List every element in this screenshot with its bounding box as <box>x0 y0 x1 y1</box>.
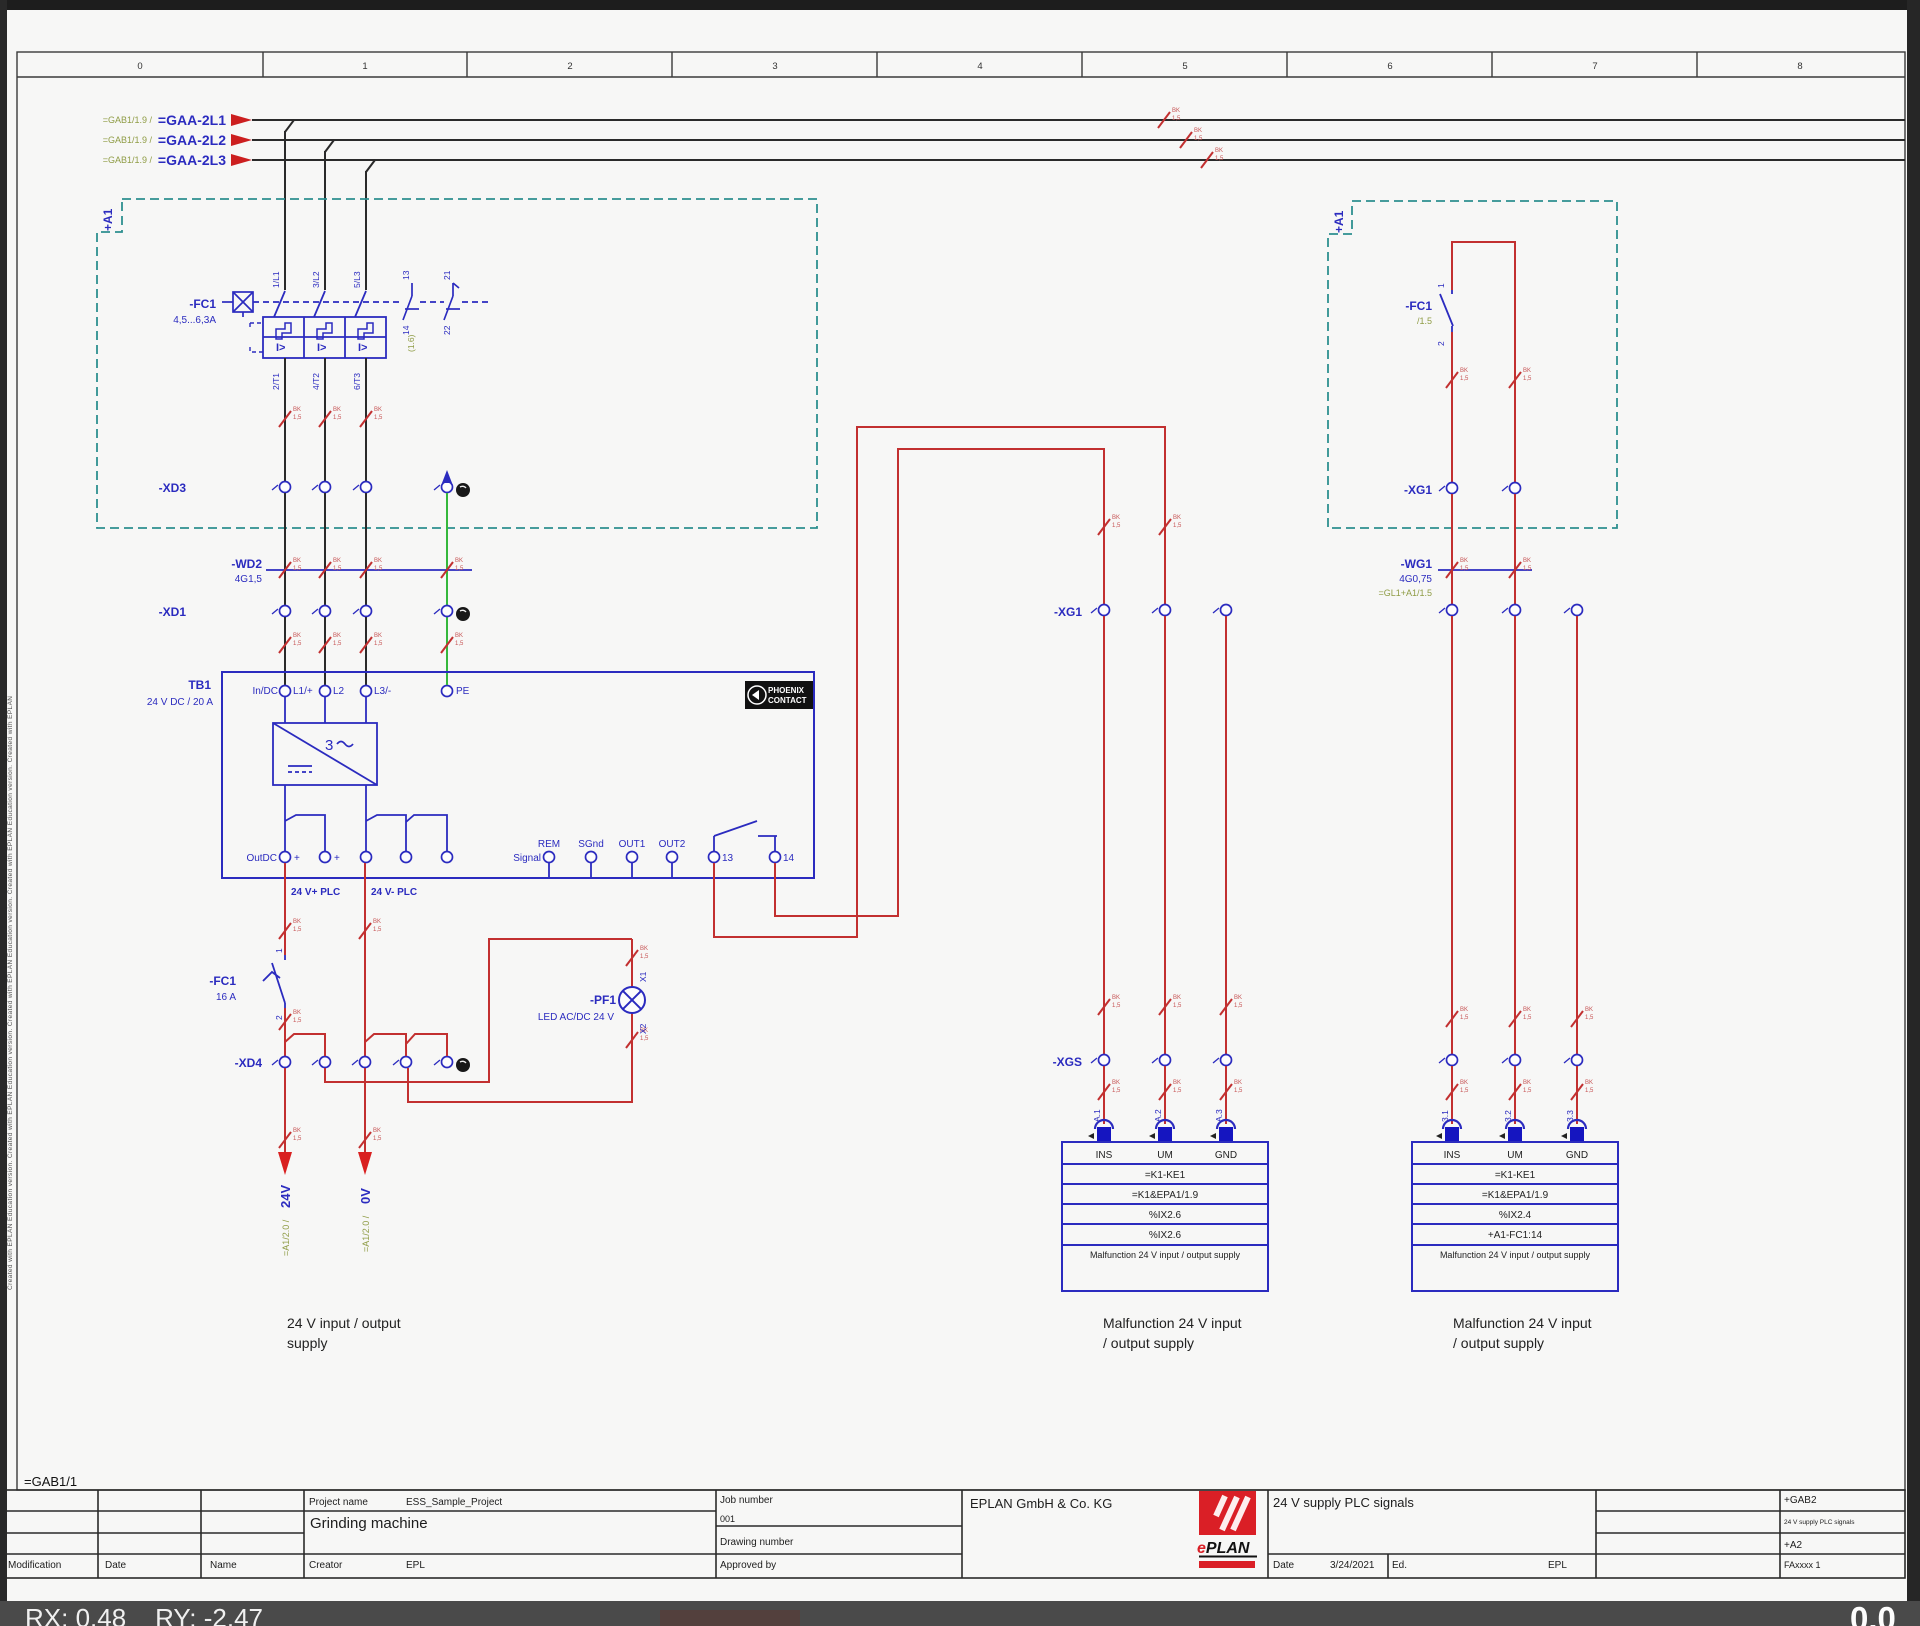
svg-text:X1: X1 <box>638 971 648 982</box>
svg-text:24 V supply PLC signals: 24 V supply PLC signals <box>1273 1495 1414 1510</box>
svg-text:In/DC: In/DC <box>252 686 278 697</box>
svg-text:3/24/2021: 3/24/2021 <box>1330 1560 1375 1571</box>
svg-text:=K1&EPA1/1.9: =K1&EPA1/1.9 <box>1132 1190 1199 1201</box>
svg-text:%IX2.6: %IX2.6 <box>1149 1210 1182 1221</box>
svg-text:6: 6 <box>1387 61 1392 72</box>
svg-text:+: + <box>334 853 340 864</box>
svg-text:ESS_Sample_Project: ESS_Sample_Project <box>406 1497 502 1508</box>
svg-text:4G1,5: 4G1,5 <box>235 574 263 585</box>
svg-text:ePLAN: ePLAN <box>1197 1540 1250 1557</box>
svg-text:Malfunction 24 V input: Malfunction 24 V input <box>1103 1315 1242 1331</box>
svg-text:(1.6): (1.6) <box>406 334 416 352</box>
svg-text:-XD1: -XD1 <box>159 605 187 619</box>
svg-text:1/L1: 1/L1 <box>271 271 281 288</box>
svg-text:2: 2 <box>1436 341 1446 346</box>
svg-text:14: 14 <box>401 325 411 335</box>
svg-text:=GAB1/1.9 /: =GAB1/1.9 / <box>103 115 153 125</box>
svg-text:1: 1 <box>1436 283 1446 288</box>
svg-text:Modification: Modification <box>8 1560 61 1571</box>
svg-text:21: 21 <box>442 270 452 280</box>
svg-text:-WD2: -WD2 <box>231 557 262 571</box>
svg-text:3: 3 <box>325 737 333 754</box>
svg-text:13: 13 <box>401 270 411 280</box>
svg-text:-PF1: -PF1 <box>590 993 616 1007</box>
svg-text:=K1-KE1: =K1-KE1 <box>1145 1170 1186 1181</box>
svg-text:001: 001 <box>720 1514 735 1524</box>
svg-text:Job number: Job number <box>720 1495 773 1506</box>
svg-text:22: 22 <box>442 325 452 335</box>
svg-text:Grinding machine: Grinding machine <box>310 1515 428 1532</box>
svg-text:=GL1+A1/1.5: =GL1+A1/1.5 <box>1378 588 1432 598</box>
svg-text:I>: I> <box>317 342 326 354</box>
svg-text:0.0: 0.0 <box>1850 1600 1896 1626</box>
svg-text:24 V input / output: 24 V input / output <box>287 1315 401 1331</box>
svg-text:+A1-FC1:14: +A1-FC1:14 <box>1488 1230 1543 1241</box>
svg-text:/ output supply: / output supply <box>1103 1335 1194 1351</box>
svg-text:LED AC/DC 24 V: LED AC/DC 24 V <box>538 1012 614 1023</box>
svg-text:16 A: 16 A <box>216 992 236 1003</box>
svg-text:=GAB1/1: =GAB1/1 <box>24 1474 77 1489</box>
svg-text:=A1/2.0 /: =A1/2.0 / <box>281 1219 291 1256</box>
svg-text:24 V supply PLC signals: 24 V supply PLC signals <box>1784 1519 1855 1526</box>
svg-text:UM: UM <box>1507 1150 1523 1161</box>
svg-text:2/T1: 2/T1 <box>271 373 281 390</box>
svg-text:2: 2 <box>274 1015 284 1020</box>
svg-text:+GAB2: +GAB2 <box>1784 1495 1817 1506</box>
svg-text:Project name: Project name <box>309 1497 368 1508</box>
svg-text:Approved by: Approved by <box>720 1560 776 1571</box>
svg-text:GND: GND <box>1215 1150 1237 1161</box>
svg-text:+A1: +A1 <box>101 208 115 231</box>
svg-text:-XG1: -XG1 <box>1054 605 1082 619</box>
svg-text:24 V- PLC: 24 V- PLC <box>371 887 417 898</box>
svg-text:L2: L2 <box>333 686 345 697</box>
svg-text:=K1-KE1: =K1-KE1 <box>1495 1170 1536 1181</box>
svg-text:OUT2: OUT2 <box>659 839 686 850</box>
svg-text:5: 5 <box>1182 61 1187 72</box>
svg-text:4: 4 <box>977 61 982 72</box>
svg-text:4,5...6,3A: 4,5...6,3A <box>173 315 216 326</box>
svg-text:1: 1 <box>362 61 367 72</box>
svg-text:4/T2: 4/T2 <box>311 373 321 390</box>
svg-text:Name: Name <box>210 1560 237 1571</box>
svg-text:supply: supply <box>287 1335 327 1351</box>
svg-text:Created with EPLAN Education v: Created with EPLAN Education version. Cr… <box>7 696 14 1290</box>
svg-text:13: 13 <box>722 853 734 864</box>
svg-text:24 V DC / 20 A: 24 V DC / 20 A <box>147 697 213 708</box>
svg-text:PE: PE <box>456 686 470 697</box>
svg-text:Malfunction 24 V input / outpu: Malfunction 24 V input / output supply <box>1090 1250 1241 1260</box>
svg-text:Malfunction 24 V input: Malfunction 24 V input <box>1453 1315 1592 1331</box>
svg-text:7: 7 <box>1592 61 1597 72</box>
svg-text:REM: REM <box>538 839 560 850</box>
svg-text:%IX2.6: %IX2.6 <box>1149 1230 1182 1241</box>
svg-text:24 V+ PLC: 24 V+ PLC <box>291 887 340 898</box>
svg-text:=GAB1/1.9 /: =GAB1/1.9 / <box>103 155 153 165</box>
svg-text:-XG1: -XG1 <box>1404 483 1432 497</box>
svg-text:/ output supply: / output supply <box>1453 1335 1544 1351</box>
svg-text:=GAA-2L2: =GAA-2L2 <box>158 132 226 148</box>
svg-text:SGnd: SGnd <box>578 839 604 850</box>
svg-text:EPL: EPL <box>406 1560 425 1571</box>
svg-text:TB1: TB1 <box>188 678 211 692</box>
svg-text:Creator: Creator <box>309 1560 343 1571</box>
svg-text:5/L3: 5/L3 <box>352 271 362 288</box>
svg-text:OutDC: OutDC <box>246 853 277 864</box>
svg-text:X2: X2 <box>638 1023 648 1034</box>
svg-text:-FC1: -FC1 <box>209 974 236 988</box>
svg-text:2: 2 <box>567 61 572 72</box>
svg-text:-XD4: -XD4 <box>235 1056 263 1070</box>
svg-text:I>: I> <box>276 342 285 354</box>
svg-text:0V: 0V <box>358 1188 373 1204</box>
svg-text:OUT1: OUT1 <box>619 839 646 850</box>
svg-text:PHOENIX: PHOENIX <box>768 686 805 695</box>
svg-text:=GAA-2L3: =GAA-2L3 <box>158 152 226 168</box>
svg-text:1: 1 <box>274 948 284 953</box>
svg-text:-FC1: -FC1 <box>189 297 216 311</box>
svg-text:Malfunction 24 V input / outpu: Malfunction 24 V input / output supply <box>1440 1250 1591 1260</box>
svg-text:+A2: +A2 <box>1784 1540 1803 1551</box>
svg-text:Date: Date <box>105 1560 127 1571</box>
svg-text:3/L2: 3/L2 <box>311 271 321 288</box>
svg-text:0: 0 <box>137 61 142 72</box>
svg-text:/1.5: /1.5 <box>1417 316 1432 326</box>
svg-text:=A1/2.0 /: =A1/2.0 / <box>361 1215 371 1252</box>
svg-text:Date: Date <box>1273 1560 1295 1571</box>
svg-text:EPLAN GmbH & Co. KG: EPLAN GmbH & Co. KG <box>970 1496 1112 1511</box>
svg-text:6/T3: 6/T3 <box>352 373 362 390</box>
svg-text:UM: UM <box>1157 1150 1173 1161</box>
svg-text:4G0,75: 4G0,75 <box>1399 574 1432 585</box>
svg-text:14: 14 <box>783 853 795 864</box>
svg-text:3: 3 <box>772 61 777 72</box>
svg-text:GND: GND <box>1566 1150 1588 1161</box>
svg-text:+A1: +A1 <box>1332 210 1346 233</box>
svg-text:EPL: EPL <box>1548 1560 1567 1571</box>
svg-text:-FC1: -FC1 <box>1405 299 1432 313</box>
svg-text:Ed.: Ed. <box>1392 1560 1407 1571</box>
svg-text:=GAB1/1.9 /: =GAB1/1.9 / <box>103 135 153 145</box>
svg-text:=GAA-2L1: =GAA-2L1 <box>158 112 226 128</box>
svg-text:L3/-: L3/- <box>374 686 391 697</box>
svg-text:=K1&EPA1/1.9: =K1&EPA1/1.9 <box>1482 1190 1549 1201</box>
svg-text:RX: 0.48 RY: -2.47: RX: 0.48 RY: -2.47 <box>25 1603 263 1626</box>
svg-text:FAxxxx 1: FAxxxx 1 <box>1784 1560 1821 1570</box>
svg-text:CONTACT: CONTACT <box>768 696 807 705</box>
svg-text:8: 8 <box>1797 61 1802 72</box>
svg-text:-XGS: -XGS <box>1053 1055 1082 1069</box>
svg-text:L1/+: L1/+ <box>293 686 313 697</box>
svg-text:-WG1: -WG1 <box>1401 557 1433 571</box>
svg-text:INS: INS <box>1444 1150 1461 1161</box>
svg-text:Drawing number: Drawing number <box>720 1537 794 1548</box>
svg-text:%IX2.4: %IX2.4 <box>1499 1210 1532 1221</box>
svg-text:24V: 24V <box>278 1185 293 1208</box>
svg-text:-XD3: -XD3 <box>159 481 187 495</box>
svg-text:I>: I> <box>358 342 367 354</box>
svg-text:INS: INS <box>1096 1150 1113 1161</box>
svg-text:+: + <box>294 853 300 864</box>
svg-text:Signal: Signal <box>513 853 541 864</box>
